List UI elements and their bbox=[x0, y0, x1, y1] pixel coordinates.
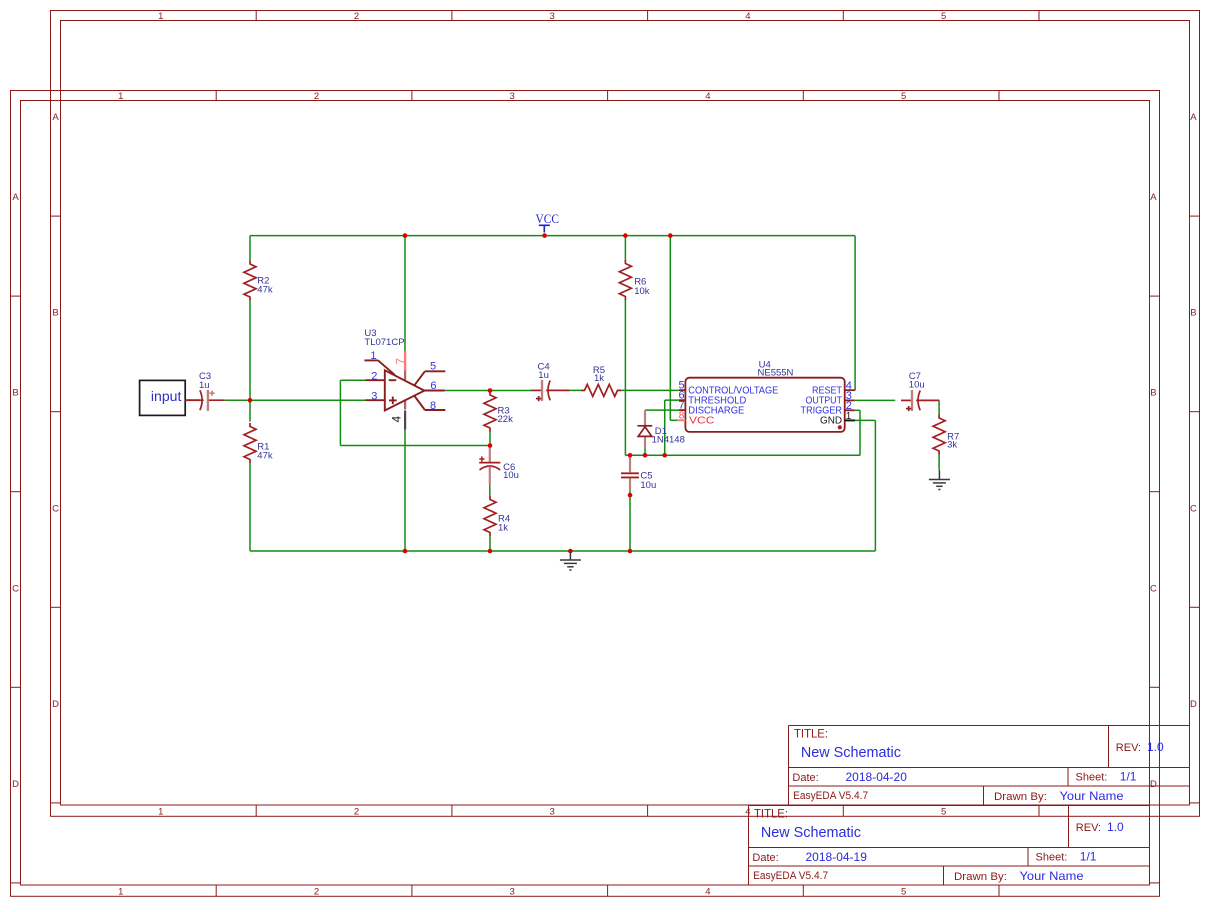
svg-text:47k: 47k bbox=[257, 284, 273, 295]
svg-text:8: 8 bbox=[679, 411, 685, 422]
svg-text:1u: 1u bbox=[538, 370, 549, 381]
svg-text:input: input bbox=[151, 388, 182, 404]
svg-text:47k: 47k bbox=[257, 450, 273, 461]
svg-text:22k: 22k bbox=[498, 414, 514, 425]
svg-text:5: 5 bbox=[430, 360, 436, 372]
svg-text:2: 2 bbox=[371, 370, 377, 382]
svg-text:4: 4 bbox=[392, 415, 404, 422]
svg-text:1k: 1k bbox=[594, 373, 604, 384]
svg-text:1: 1 bbox=[846, 411, 852, 422]
svg-text:1k: 1k bbox=[498, 522, 508, 533]
svg-text:GND: GND bbox=[820, 416, 842, 427]
svg-text:NE555N: NE555N bbox=[758, 368, 794, 379]
svg-text:1u: 1u bbox=[199, 380, 210, 391]
svg-text:3: 3 bbox=[371, 390, 377, 402]
svg-text:10u: 10u bbox=[503, 470, 519, 481]
svg-text:8: 8 bbox=[430, 400, 436, 412]
svg-text:10u: 10u bbox=[640, 480, 656, 491]
svg-text:VCC: VCC bbox=[689, 416, 715, 427]
svg-text:2018-04-19: 2018-04-19 bbox=[806, 850, 868, 864]
svg-text:1N4148: 1N4148 bbox=[652, 435, 685, 446]
svg-text:1: 1 bbox=[370, 350, 376, 362]
svg-text:VCC: VCC bbox=[536, 211, 560, 226]
svg-text:TL071CP: TL071CP bbox=[364, 337, 404, 348]
svg-text:3k: 3k bbox=[947, 440, 957, 451]
svg-text:2: 2 bbox=[846, 400, 852, 412]
svg-text:7: 7 bbox=[395, 358, 407, 364]
svg-text:6: 6 bbox=[430, 380, 436, 392]
svg-text:2018-04-20: 2018-04-20 bbox=[846, 770, 908, 784]
svg-text:10k: 10k bbox=[634, 286, 650, 297]
svg-text:10u: 10u bbox=[909, 380, 925, 391]
